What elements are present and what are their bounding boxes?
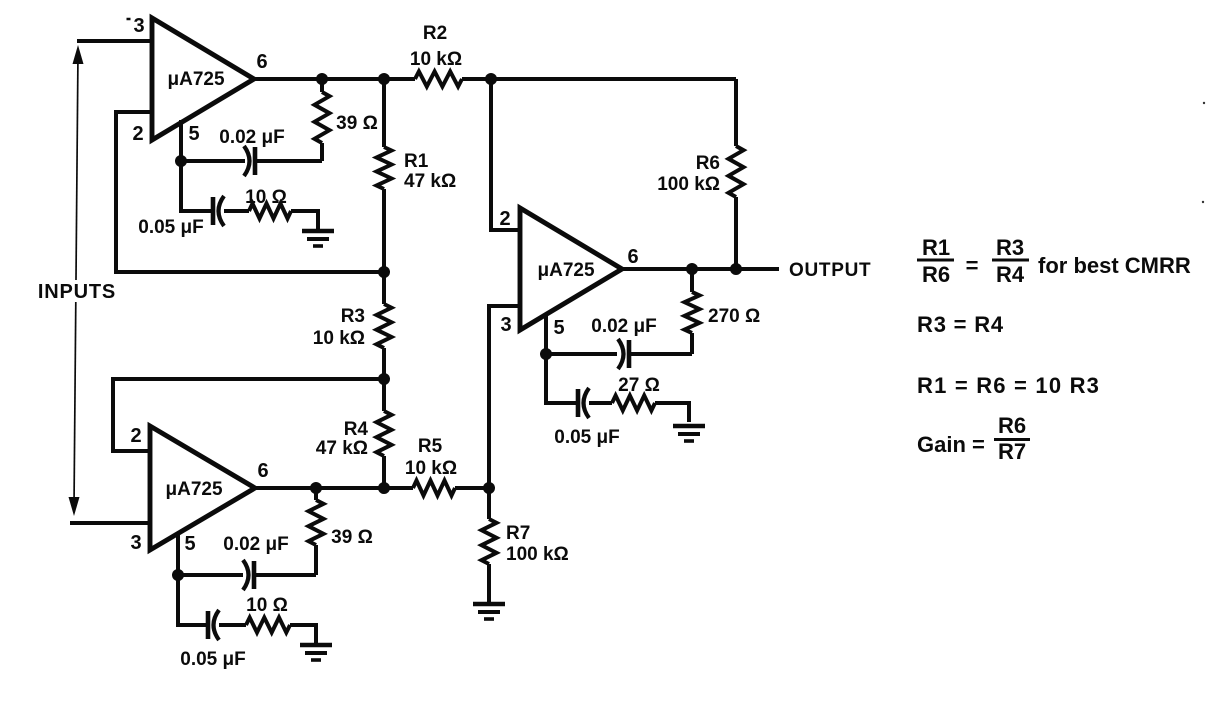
input arrow head up: [73, 45, 84, 64]
input arrow line: [74, 52, 78, 506]
svg-text:39 Ω: 39 Ω: [336, 113, 378, 134]
node U1 out / R1: [378, 73, 390, 85]
U1 pin5 stub: [179, 120, 183, 161]
svg-text:0.02 μF: 0.02 μF: [223, 534, 289, 555]
svg-text:INPUTS: INPUTS: [38, 281, 116, 303]
svg-text:6: 6: [627, 246, 638, 268]
U3 pin5 stub: [176, 532, 180, 575]
node U2 out / R6: [730, 263, 742, 275]
node U3 pin5: [172, 569, 184, 581]
node R5 / R7 / U2 pin3: [483, 482, 495, 494]
svg-text:0.05 μF: 0.05 μF: [554, 427, 620, 448]
wire U2 pin2 branch: [491, 79, 520, 230]
resistor R2: [415, 72, 462, 87]
svg-text:R5: R5: [418, 436, 443, 457]
node U1 pin5: [175, 155, 187, 167]
U2 pin5 stub: [544, 313, 548, 354]
svg-text:R3: R3: [996, 235, 1024, 260]
svg-text:R4: R4: [996, 262, 1025, 287]
capacitor 0.02uF U3: [178, 573, 243, 577]
svg-text:R2: R2: [423, 23, 447, 44]
svg-text:100 kΩ: 100 kΩ: [657, 174, 720, 195]
svg-text:R6: R6: [998, 413, 1026, 438]
resistor R7: [487, 488, 491, 519]
node U3 out / R4: [378, 482, 390, 494]
svg-text:3: 3: [130, 532, 141, 554]
svg-text:0.05 μF: 0.05 μF: [138, 217, 204, 238]
scan tick above 3: [127, 18, 131, 21]
wire input pin3 U1: [77, 39, 152, 43]
svg-text:R1: R1: [404, 151, 429, 172]
svg-text:3: 3: [500, 314, 511, 336]
svg-text:R4: R4: [344, 419, 369, 440]
ground U2 network: [673, 424, 705, 429]
resistor 10ohm U3: [246, 618, 290, 633]
capacitor 0.05uF U1: [181, 161, 213, 211]
input arrow head down: [69, 497, 80, 516]
svg-text:Gain =: Gain =: [917, 432, 985, 457]
capacitor 0.02uF U1: [181, 159, 245, 163]
resistor 39ohm U3: [314, 488, 318, 500]
svg-text:R3 = R4: R3 = R4: [917, 312, 1004, 337]
svg-text:μA725: μA725: [165, 479, 222, 500]
svg-text:R6: R6: [696, 153, 720, 174]
resistor 10ohm U1: [249, 204, 291, 219]
INPUTS label: [36, 280, 118, 302]
wire U1 feedback pin2: [116, 112, 384, 272]
svg-text:R3: R3: [341, 306, 365, 327]
svg-text:6: 6: [257, 460, 268, 482]
capacitor 0.05uF U2: [546, 354, 578, 403]
resistor 39ohm U1: [320, 79, 324, 92]
node R3 / R4 / U3 feedback: [378, 373, 390, 385]
resistor R5: [413, 481, 455, 496]
capacitor 0.02uF U2: [546, 352, 617, 356]
svg-text:10 kΩ: 10 kΩ: [410, 49, 462, 70]
svg-text:for best CMRR: for best CMRR: [1038, 253, 1191, 278]
node U1 out / 39ohm: [316, 73, 328, 85]
svg-text:R1: R1: [922, 235, 950, 260]
node U2 out / 270ohm: [686, 263, 698, 275]
wire U1 output: [254, 77, 415, 81]
resistor R4: [382, 379, 386, 411]
node R1 / R3 / U1 feedback: [378, 266, 390, 278]
capacitor 0.05uF U3: [178, 575, 208, 625]
ground U3 network: [300, 643, 332, 648]
node U2 pin5: [540, 348, 552, 360]
wire U3 output: [255, 486, 413, 490]
resistor R6: [734, 79, 738, 146]
svg-text:0.02 μF: 0.02 μF: [591, 316, 657, 337]
svg-text:R6: R6: [922, 262, 950, 287]
node R2 / U2 pin2: [485, 73, 497, 85]
svg-text:10 Ω: 10 Ω: [246, 595, 288, 616]
svg-text:2: 2: [130, 425, 141, 447]
svg-text:3: 3: [133, 15, 144, 37]
wire input pin3 U3: [70, 521, 150, 525]
resistor 270ohm: [690, 269, 694, 292]
svg-text:39 Ω: 39 Ω: [331, 527, 373, 548]
resistor R1: [382, 79, 386, 147]
op-amp U1 triangle: [152, 18, 254, 140]
svg-text:μA725: μA725: [537, 260, 594, 281]
svg-text:R7: R7: [506, 523, 530, 544]
svg-text:2: 2: [132, 123, 143, 145]
op-amp U2 triangle: [520, 208, 622, 330]
svg-text:OUTPUT: OUTPUT: [789, 260, 871, 281]
svg-text:5: 5: [553, 317, 564, 339]
wire U3 feedback pin2: [113, 379, 384, 451]
op-amp U3 triangle: [150, 426, 255, 550]
wire U2 pin3 branch: [489, 306, 520, 488]
svg-text:10 kΩ: 10 kΩ: [405, 458, 457, 479]
svg-text:R1 = R6 = 10 R3: R1 = R6 = 10 R3: [917, 373, 1100, 398]
svg-text:10 Ω: 10 Ω: [245, 187, 287, 208]
svg-text:2: 2: [499, 208, 510, 230]
svg-text:100 kΩ: 100 kΩ: [506, 544, 569, 565]
svg-text:0.05 μF: 0.05 μF: [180, 649, 246, 670]
ground R7: [473, 602, 505, 607]
svg-text:=: =: [966, 253, 979, 278]
svg-text:270 Ω: 270 Ω: [708, 306, 760, 327]
scan dot right 2: [1202, 201, 1204, 203]
svg-text:47 kΩ: 47 kΩ: [404, 171, 456, 192]
resistor R3: [382, 272, 386, 304]
node U3 out / 39ohm: [310, 482, 322, 494]
svg-text:10 kΩ: 10 kΩ: [313, 328, 365, 349]
svg-text:0.02 μF: 0.02 μF: [219, 127, 285, 148]
svg-text:5: 5: [184, 533, 195, 555]
svg-text:47 kΩ: 47 kΩ: [316, 438, 368, 459]
svg-text:5: 5: [188, 123, 199, 145]
svg-text:27 Ω: 27 Ω: [618, 375, 660, 396]
svg-text:R7: R7: [998, 439, 1026, 464]
scan dot right 1: [1203, 102, 1205, 104]
svg-text:μA725: μA725: [167, 69, 224, 90]
svg-text:6: 6: [256, 51, 267, 73]
ground U1 network: [302, 229, 334, 234]
wire R2 to R6 top: [462, 77, 736, 81]
wire U2 output: [622, 267, 779, 271]
resistor 27ohm: [612, 396, 655, 411]
